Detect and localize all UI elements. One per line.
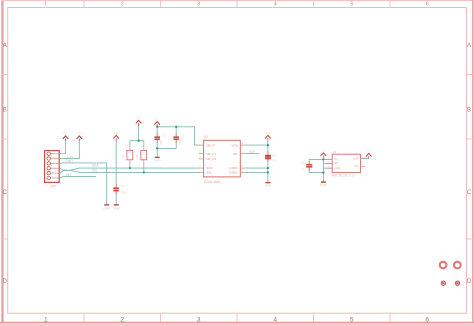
svg-text:GND: GND bbox=[335, 166, 341, 170]
svg-text:B: B bbox=[467, 108, 471, 114]
svg-text:6: 6 bbox=[425, 316, 429, 323]
svg-text:1: 1 bbox=[44, 1, 47, 7]
svg-text:INT: INT bbox=[233, 152, 238, 156]
svg-text:2: 2 bbox=[121, 1, 124, 7]
svg-text:3.3V: 3.3V bbox=[114, 132, 119, 135]
svg-text:GND2: GND2 bbox=[229, 171, 238, 175]
svg-text:GND: GND bbox=[103, 207, 111, 211]
svg-text:VIN: VIN bbox=[321, 150, 325, 153]
svg-text:6: 6 bbox=[426, 1, 429, 7]
svg-text:VCC: VCC bbox=[155, 118, 160, 121]
svg-text:U1: U1 bbox=[204, 135, 208, 139]
svg-text:3.3V: 3.3V bbox=[265, 132, 270, 135]
svg-text:C: C bbox=[467, 190, 472, 196]
svg-text:DR_K1: DR_K1 bbox=[206, 152, 216, 156]
svg-text:GND: GND bbox=[154, 159, 162, 163]
svg-text:EN: EN bbox=[335, 161, 339, 165]
svg-text:2: 2 bbox=[120, 316, 124, 323]
svg-text:JP2: JP2 bbox=[50, 185, 56, 189]
svg-text:3.3V: 3.3V bbox=[77, 132, 82, 135]
svg-text:100n: 100n bbox=[121, 192, 127, 195]
svg-text:INT: INT bbox=[66, 173, 71, 177]
svg-text:DR_K2: DR_K2 bbox=[206, 157, 216, 161]
svg-text:4: 4 bbox=[274, 1, 277, 7]
svg-text:3: 3 bbox=[197, 1, 200, 7]
svg-text:VCC: VCC bbox=[136, 117, 141, 120]
svg-text:VCC: VCC bbox=[63, 132, 68, 135]
svg-text:5: 5 bbox=[350, 1, 353, 7]
svg-text:D: D bbox=[3, 279, 8, 285]
svg-text:U2: U2 bbox=[332, 150, 336, 154]
svg-text:VCNL4040: VCNL4040 bbox=[204, 180, 221, 184]
svg-text:GND: GND bbox=[265, 184, 273, 188]
svg-text:SDA: SDA bbox=[92, 164, 100, 168]
svg-text:GND: GND bbox=[320, 183, 328, 187]
svg-text:OUT: OUT bbox=[353, 156, 359, 160]
svg-text:100n: 100n bbox=[160, 139, 163, 145]
svg-text:A: A bbox=[467, 43, 471, 49]
svg-text:100n: 100n bbox=[179, 139, 182, 145]
svg-text:IN: IN bbox=[335, 157, 338, 161]
svg-text:SCL: SCL bbox=[206, 171, 212, 175]
svg-text:10k: 10k bbox=[140, 154, 144, 159]
svg-text:B: B bbox=[3, 108, 7, 114]
svg-text:INT: INT bbox=[249, 150, 254, 154]
svg-text:D: D bbox=[467, 279, 472, 285]
svg-text:SCL: SCL bbox=[92, 169, 99, 173]
svg-text:SDA: SDA bbox=[206, 166, 213, 170]
svg-text:MIC5225-3.3: MIC5225-3.3 bbox=[332, 174, 354, 178]
svg-text:10u: 10u bbox=[272, 160, 277, 163]
svg-text:3.3V: 3.3V bbox=[366, 150, 371, 153]
svg-text:C: C bbox=[3, 190, 8, 196]
svg-text:A: A bbox=[3, 43, 7, 49]
svg-text:3: 3 bbox=[197, 316, 201, 323]
svg-text:10k: 10k bbox=[126, 154, 130, 159]
svg-text:VDD: VDD bbox=[231, 143, 238, 147]
svg-text:DR_R: DR_R bbox=[206, 143, 215, 147]
svg-text:1: 1 bbox=[44, 316, 48, 323]
svg-text:GND: GND bbox=[113, 207, 121, 211]
svg-text:GND1: GND1 bbox=[229, 166, 238, 170]
svg-text:4: 4 bbox=[273, 316, 277, 323]
svg-text:PG: PG bbox=[355, 164, 359, 168]
svg-text:5: 5 bbox=[350, 316, 354, 323]
svg-text:GND: GND bbox=[65, 159, 73, 163]
